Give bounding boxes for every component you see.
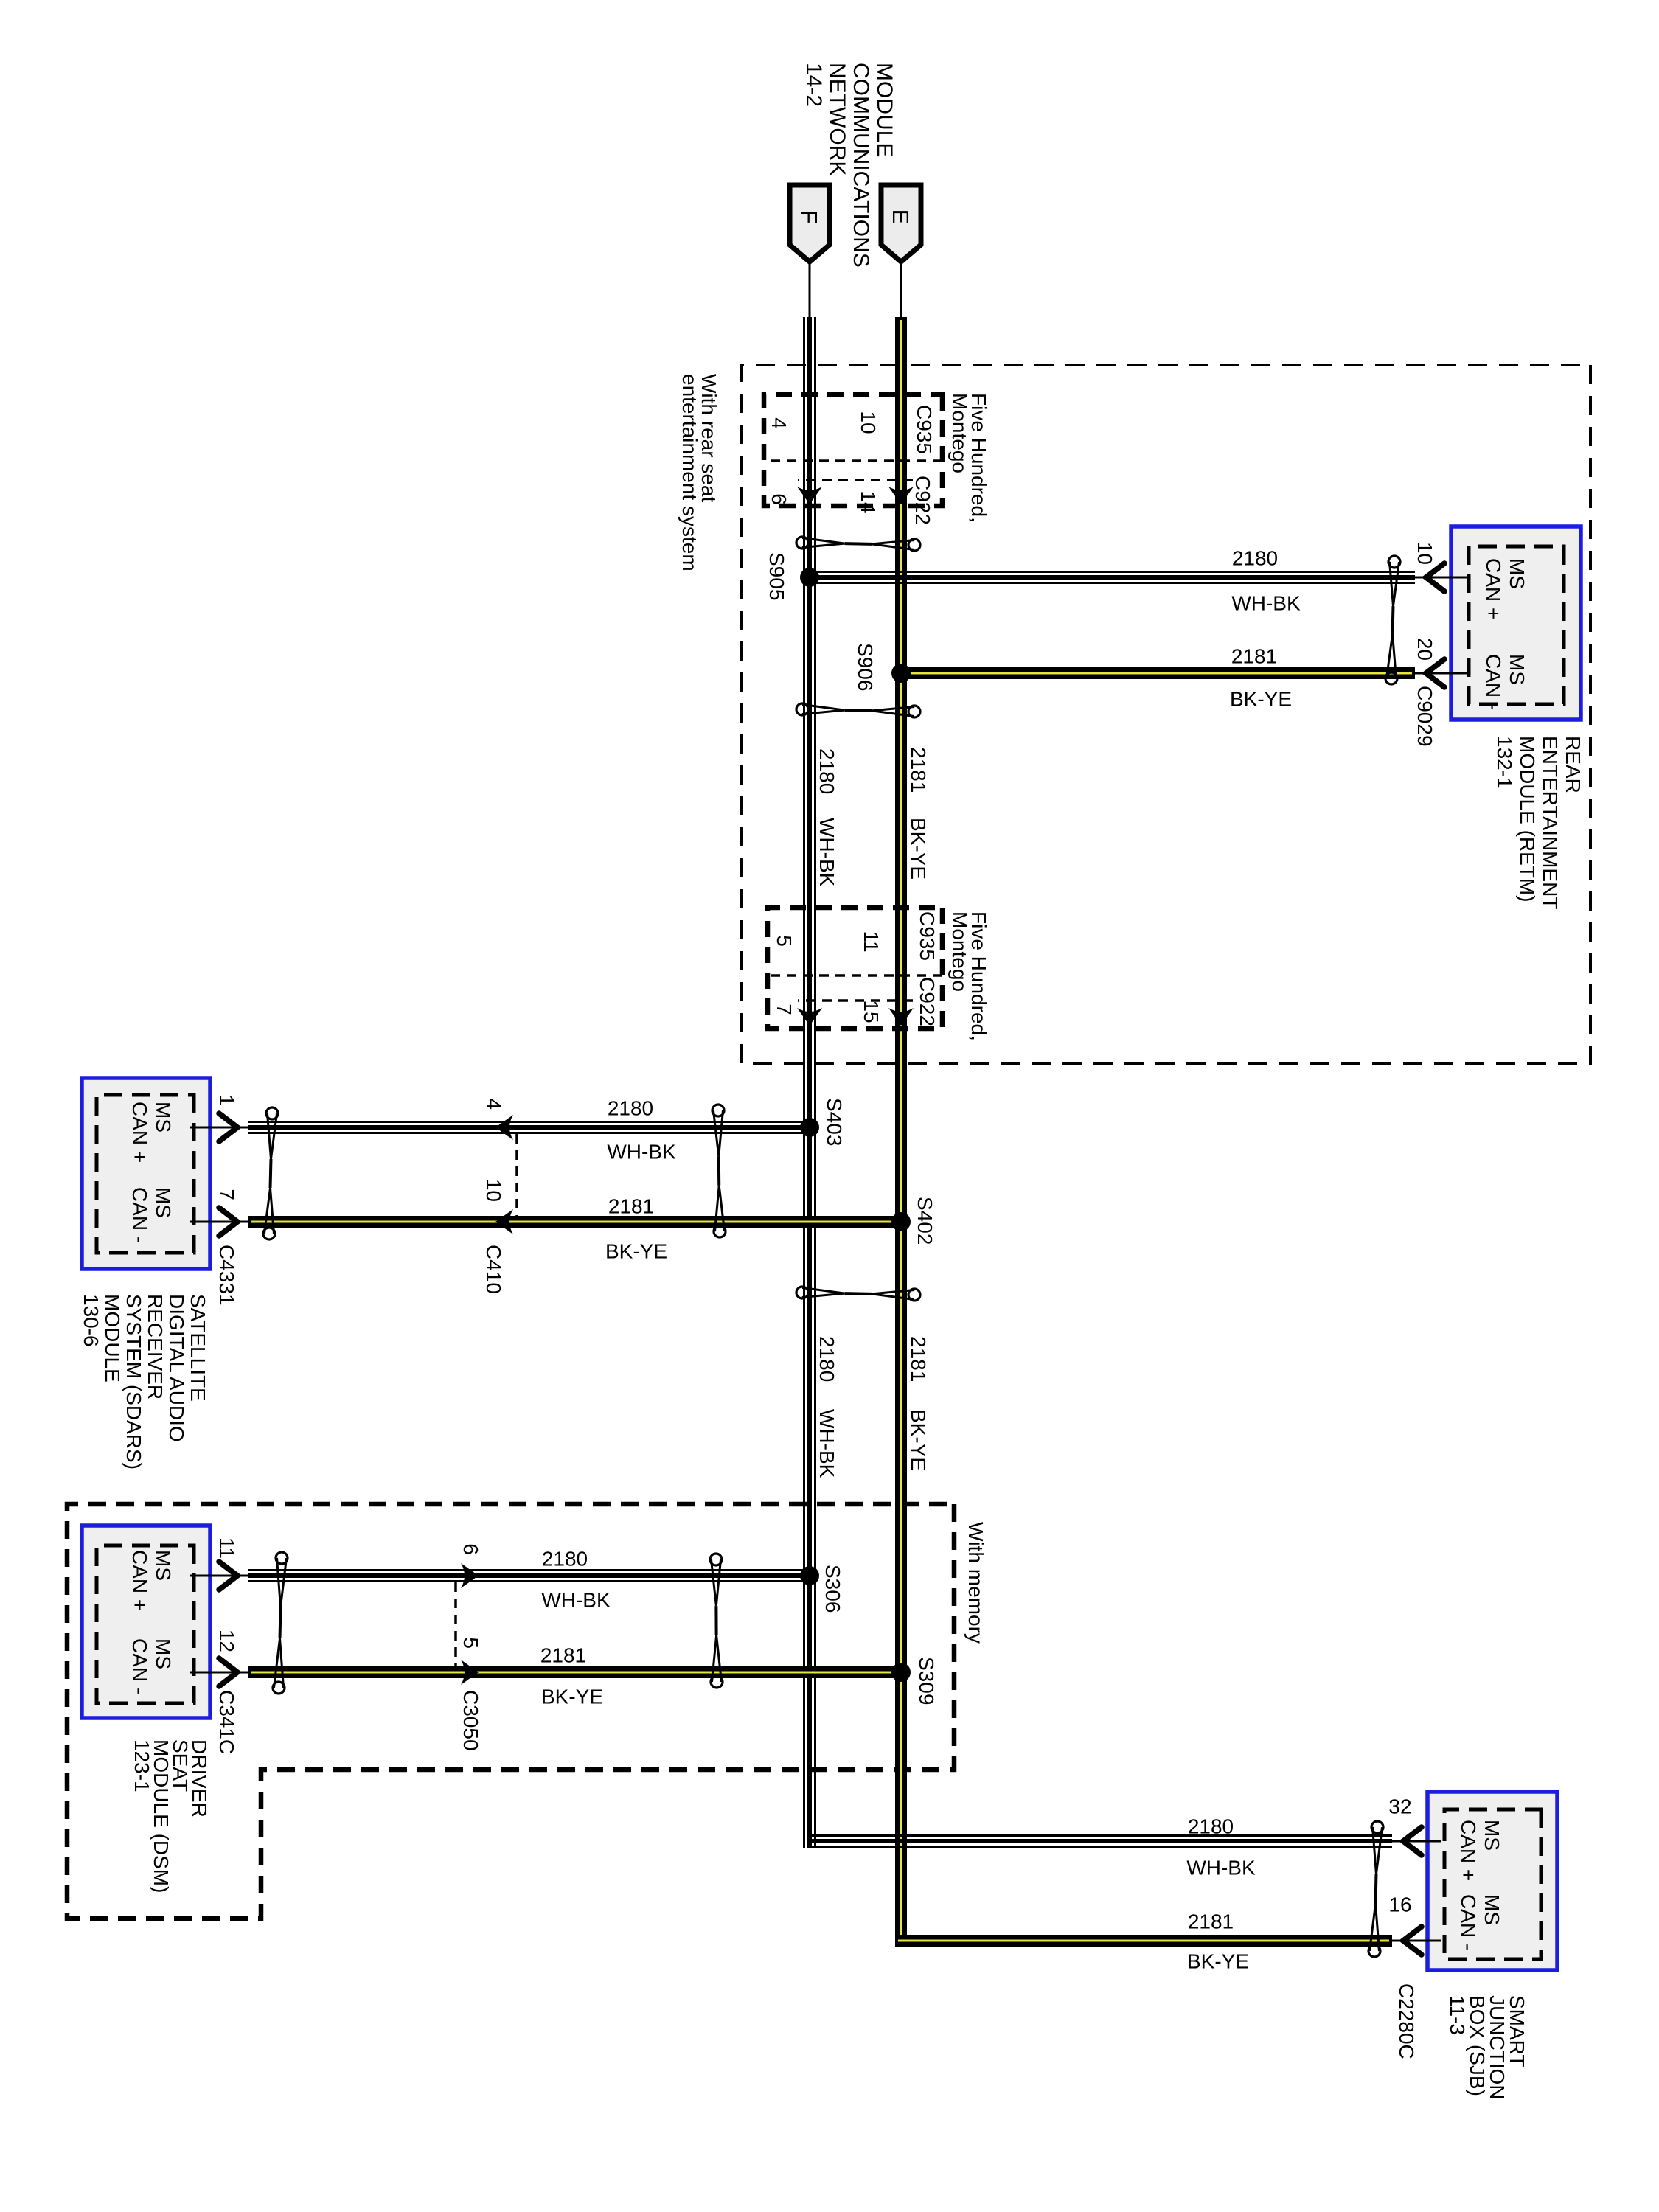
svg-text:BK-YE: BK-YE bbox=[605, 1240, 667, 1263]
svg-text:C3050: C3050 bbox=[459, 1690, 482, 1751]
svg-text:S309: S309 bbox=[915, 1657, 938, 1705]
svg-text:2181: 2181 bbox=[1188, 1910, 1234, 1933]
svg-text:WH-BK: WH-BK bbox=[541, 1589, 611, 1612]
svg-text:DIGITAL AUDIO: DIGITAL AUDIO bbox=[165, 1294, 188, 1442]
svg-text:C9029: C9029 bbox=[1413, 686, 1436, 747]
svg-text:WH-BK: WH-BK bbox=[1186, 1857, 1256, 1879]
svg-text:MS: MS bbox=[152, 1187, 175, 1218]
svg-text:11: 11 bbox=[215, 1537, 238, 1559]
svg-text:MS: MS bbox=[152, 1638, 175, 1669]
svg-text:MS: MS bbox=[152, 1550, 175, 1581]
svg-text:CAN +: CAN + bbox=[128, 1550, 151, 1611]
svg-text:MS: MS bbox=[1506, 654, 1528, 685]
svg-text:10: 10 bbox=[482, 1179, 505, 1202]
svg-text:2181: 2181 bbox=[907, 1336, 930, 1382]
svg-text:E: E bbox=[888, 209, 914, 225]
svg-text:BK-YE: BK-YE bbox=[907, 818, 930, 880]
svg-text:SYSTEM (SDARS): SYSTEM (SDARS) bbox=[122, 1294, 145, 1470]
svg-text:5: 5 bbox=[459, 1637, 482, 1649]
svg-text:C922: C922 bbox=[916, 977, 939, 1026]
svg-text:BOX (SJB): BOX (SJB) bbox=[1466, 1995, 1489, 2096]
svg-text:BK-YE: BK-YE bbox=[541, 1686, 603, 1708]
svg-text:SMART: SMART bbox=[1506, 1995, 1528, 2067]
svg-text:11: 11 bbox=[860, 931, 883, 952]
svg-text:32: 32 bbox=[1388, 1795, 1411, 1818]
svg-text:2180: 2180 bbox=[608, 1097, 653, 1120]
svg-text:2180: 2180 bbox=[1232, 547, 1278, 570]
svg-text:CAN -: CAN - bbox=[1457, 1894, 1480, 1950]
svg-text:4: 4 bbox=[768, 417, 790, 429]
svg-text:Montego: Montego bbox=[948, 393, 971, 473]
svg-text:WH-BK: WH-BK bbox=[815, 1409, 838, 1478]
svg-text:C4331: C4331 bbox=[215, 1245, 238, 1306]
svg-text:entertainment system: entertainment system bbox=[678, 374, 701, 571]
svg-text:7: 7 bbox=[215, 1189, 238, 1200]
svg-text:10: 10 bbox=[1413, 542, 1436, 565]
svg-text:2180: 2180 bbox=[542, 1548, 588, 1571]
svg-text:WH-BK: WH-BK bbox=[607, 1141, 676, 1164]
svg-text:MODULE: MODULE bbox=[872, 63, 897, 157]
svg-text:CAN -: CAN - bbox=[128, 1638, 151, 1694]
svg-text:16: 16 bbox=[1388, 1893, 1411, 1916]
svg-text:4: 4 bbox=[482, 1098, 505, 1110]
svg-text:C922: C922 bbox=[911, 476, 934, 525]
svg-text:11-3: 11-3 bbox=[1446, 1995, 1469, 2035]
svg-text:F: F bbox=[796, 210, 822, 224]
svg-text:2181: 2181 bbox=[1231, 645, 1277, 668]
svg-text:COMMUNICATIONS: COMMUNICATIONS bbox=[849, 63, 873, 268]
svg-text:Montego: Montego bbox=[948, 911, 971, 992]
svg-text:S905: S905 bbox=[765, 552, 788, 600]
svg-text:MS: MS bbox=[152, 1102, 175, 1133]
svg-text:2181: 2181 bbox=[907, 747, 930, 793]
svg-text:20: 20 bbox=[1413, 638, 1436, 661]
svg-text:RECEIVER: RECEIVER bbox=[144, 1294, 167, 1399]
svg-text:WH-BK: WH-BK bbox=[1231, 592, 1301, 615]
svg-text:MS: MS bbox=[1481, 1820, 1503, 1851]
svg-text:MS: MS bbox=[1481, 1894, 1503, 1925]
svg-text:2180: 2180 bbox=[1188, 1815, 1234, 1838]
svg-text:S403: S403 bbox=[823, 1098, 846, 1146]
svg-text:6: 6 bbox=[768, 493, 790, 505]
svg-text:130-6: 130-6 bbox=[80, 1294, 102, 1347]
svg-text:BK-YE: BK-YE bbox=[907, 1409, 930, 1471]
svg-text:BK-YE: BK-YE bbox=[1230, 688, 1292, 711]
svg-text:14-2: 14-2 bbox=[801, 63, 826, 107]
svg-text:SATELLITE: SATELLITE bbox=[187, 1294, 209, 1402]
svg-text:S402: S402 bbox=[914, 1197, 936, 1245]
svg-text:CAN +: CAN + bbox=[1482, 558, 1505, 619]
svg-text:CAN +: CAN + bbox=[1457, 1820, 1480, 1881]
svg-text:2181: 2181 bbox=[540, 1644, 586, 1667]
svg-text:C935: C935 bbox=[916, 911, 939, 961]
svg-text:S306: S306 bbox=[821, 1565, 844, 1613]
svg-text:132-1: 132-1 bbox=[1493, 736, 1516, 789]
svg-text:JUNCTION: JUNCTION bbox=[1486, 1995, 1509, 2100]
svg-text:CAN +: CAN + bbox=[128, 1102, 151, 1163]
svg-text:5: 5 bbox=[773, 935, 796, 947]
svg-text:12: 12 bbox=[215, 1630, 238, 1652]
svg-text:REAR: REAR bbox=[1562, 736, 1585, 793]
svg-text:7: 7 bbox=[773, 1004, 796, 1015]
svg-text:2181: 2181 bbox=[608, 1195, 654, 1218]
svg-text:CAN -: CAN - bbox=[128, 1187, 151, 1243]
svg-text:123-1: 123-1 bbox=[131, 1739, 153, 1792]
svg-text:ENTERTAINMENT: ENTERTAINMENT bbox=[1539, 736, 1562, 909]
svg-text:C341C: C341C bbox=[215, 1690, 238, 1754]
svg-text:6: 6 bbox=[459, 1543, 482, 1555]
svg-text:14: 14 bbox=[857, 490, 880, 513]
svg-text:C410: C410 bbox=[482, 1245, 505, 1294]
svg-text:CAN -: CAN - bbox=[1482, 654, 1505, 710]
svg-text:1: 1 bbox=[215, 1094, 238, 1106]
svg-text:15: 15 bbox=[860, 1000, 883, 1023]
svg-text:MODULE: MODULE bbox=[101, 1294, 124, 1382]
svg-text:C935: C935 bbox=[913, 405, 936, 454]
svg-text:2180: 2180 bbox=[815, 1336, 838, 1382]
svg-text:S906: S906 bbox=[854, 643, 877, 691]
svg-text:NETWORK: NETWORK bbox=[825, 63, 849, 175]
svg-text:BK-YE: BK-YE bbox=[1187, 1950, 1249, 1973]
svg-text:10: 10 bbox=[857, 411, 880, 434]
svg-text:MS: MS bbox=[1506, 558, 1528, 589]
svg-text:WH-BK: WH-BK bbox=[815, 818, 838, 887]
svg-text:MODULE (RETM): MODULE (RETM) bbox=[1516, 736, 1539, 902]
svg-text:With memory: With memory bbox=[964, 1522, 987, 1644]
svg-text:2180: 2180 bbox=[815, 748, 838, 794]
svg-text:C2280C: C2280C bbox=[1395, 1983, 1418, 2059]
